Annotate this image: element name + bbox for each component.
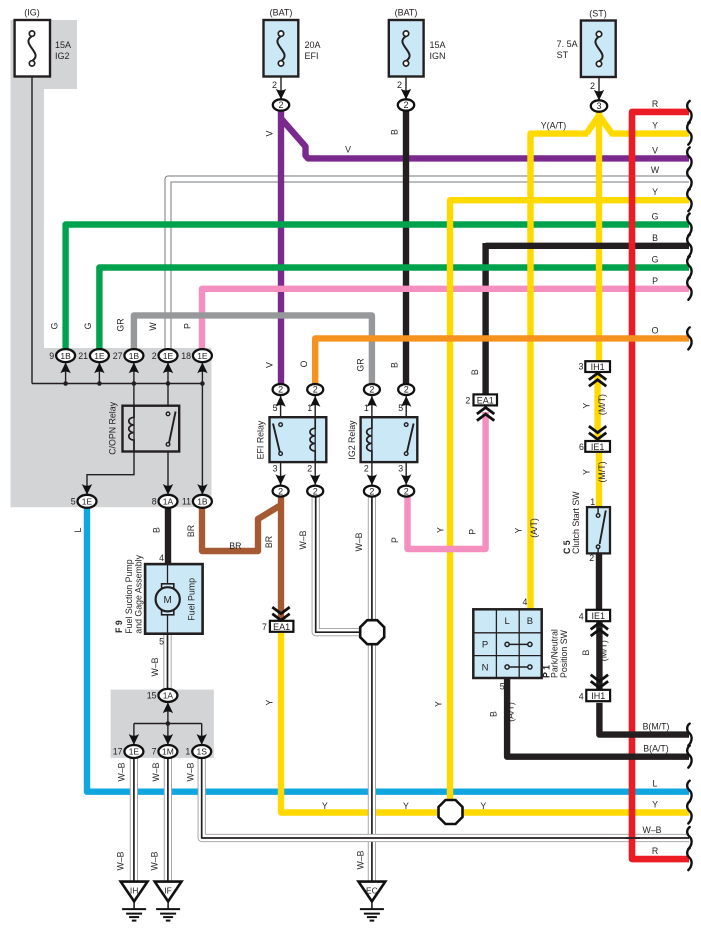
svg-text:R: R (652, 99, 658, 109)
svg-text:1E: 1E (82, 497, 93, 507)
svg-text:2: 2 (369, 486, 374, 496)
chevron into IH1 from below (589, 373, 606, 386)
svg-text:(M/T): (M/T) (597, 461, 607, 482)
svg-text:Y: Y (265, 700, 275, 706)
wire Y yellow vertical from second horizontal down to bottom splice (450, 200, 689, 806)
svg-text:(M/T): (M/T) (597, 394, 607, 415)
chevron into EA1 from below (477, 408, 494, 421)
wire G green 2 from right edge into JB 21 1E (99, 268, 689, 350)
svg-text:2: 2 (313, 486, 318, 496)
wire W-B bottom horizontal from JB 1 1S to right edge (202, 758, 689, 838)
svg-text:5: 5 (159, 636, 164, 646)
svg-text:W–B: W–B (115, 851, 125, 870)
oval connector 21 1E (90, 349, 109, 373)
wire B black clutch SW to IE1 (596, 553, 602, 609)
clutch start switch contacts (596, 507, 606, 553)
svg-text:B: B (652, 233, 658, 243)
relay IG2 coil pin1-pin2 (371, 417, 373, 462)
svg-text:B: B (389, 129, 399, 135)
svg-text:P: P (482, 640, 488, 651)
relay IG2 switch pin5-pin3 (404, 423, 413, 456)
wire stub fuse EFI to oval (280, 77, 282, 100)
fuse 7.5A ST (ST) (581, 21, 616, 78)
svg-text:Y(A/T): Y(A/T) (541, 121, 566, 131)
svg-text:1: 1 (364, 403, 369, 413)
svg-text:GR: GR (356, 358, 366, 371)
svg-text:1B: 1B (60, 351, 71, 361)
junction block gray area main block (11, 348, 212, 507)
JB bottom connector numbers (113, 691, 191, 757)
wire W-B from JB 7 1M to IF ground (164, 758, 172, 882)
svg-text:W–B: W–B (355, 850, 365, 869)
oval connector 1 1S (192, 734, 211, 758)
svg-text:1A: 1A (163, 497, 174, 507)
relay EFI coil pin1-pin2 (314, 417, 316, 462)
svg-text:2: 2 (307, 464, 312, 474)
splice octagon E3 on Y wires (439, 800, 463, 824)
svg-text:B: B (152, 527, 162, 533)
svg-text:Clutch Start SW: Clutch Start SW (571, 491, 581, 554)
svg-text:1M: 1M (162, 747, 174, 757)
wire C/OPN switch out to 8 1A (167, 444, 169, 495)
arrow into ST fuse oval (594, 90, 604, 101)
oval connector 2 below IG2 pin3 (398, 474, 414, 496)
svg-text:G: G (83, 322, 93, 329)
svg-text:W–B: W–B (298, 530, 308, 549)
wire Y(M/T) yellow from IH1 chevron down to IE1 chevron (594, 372, 600, 442)
svg-text:2: 2 (404, 385, 409, 395)
wire B(M/T) black between IE1 and IH1 (596, 622, 602, 690)
svg-text:1: 1 (185, 747, 190, 757)
svg-text:ST: ST (557, 50, 569, 60)
svg-text:5: 5 (398, 403, 403, 413)
svg-text:B: B (390, 362, 400, 368)
wire C/OPN coil out to 5 1E (87, 452, 134, 496)
wire BR brown from JB 11 1B looping to EFI relay drop (202, 505, 281, 551)
svg-text:W–B: W–B (149, 851, 159, 870)
svg-text:W–B: W–B (185, 762, 195, 781)
wire relay EFI pin stubs (281, 396, 316, 486)
svg-text:(BAT): (BAT) (270, 8, 293, 18)
svg-text:EA1: EA1 (477, 395, 494, 405)
ground IF (155, 882, 182, 921)
svg-text:2: 2 (397, 80, 402, 90)
wire B black bus horizontal from right edge to EA1 drop (486, 243, 689, 249)
oval connector 2 above EFI pin5 (273, 384, 289, 407)
svg-text:2: 2 (278, 486, 283, 496)
svg-text:4: 4 (579, 611, 584, 621)
svg-text:2: 2 (403, 100, 408, 110)
svg-text:Park/Neutral: Park/Neutral (549, 629, 559, 678)
svg-text:V: V (652, 145, 658, 155)
wire B black drop from bus to EA1 connector (482, 243, 488, 394)
connector box 3 IH1 (585, 361, 610, 372)
oval connector 18 1E (193, 349, 212, 373)
svg-text:IG2: IG2 (55, 51, 70, 61)
svg-text:15A: 15A (55, 40, 71, 50)
relay IG2 Relay box (361, 417, 418, 462)
fuel pump internal wire (167, 564, 169, 634)
svg-text:3: 3 (398, 464, 403, 474)
svg-text:2: 2 (590, 81, 595, 91)
svg-text:W–B: W–B (116, 762, 126, 781)
svg-text:P: P (390, 537, 400, 543)
oval connector 27 1B (124, 349, 143, 373)
svg-text:N: N (482, 662, 489, 673)
svg-text:BR: BR (186, 525, 196, 537)
ground EC (359, 882, 386, 921)
svg-text:Y: Y (582, 469, 592, 475)
svg-text:1E: 1E (197, 351, 208, 361)
park/neutral switch P row contact (505, 642, 532, 646)
svg-text:4: 4 (579, 691, 584, 701)
junction block gray area top-left column (11, 20, 78, 507)
svg-text:20A: 20A (305, 40, 321, 50)
relay C/OPN switch (166, 412, 175, 447)
svg-text:1S: 1S (196, 747, 207, 757)
svg-text:O: O (652, 325, 659, 335)
svg-text:L: L (73, 527, 83, 532)
connector box 4 IE1 (586, 610, 610, 621)
svg-text:G: G (652, 255, 659, 265)
svg-text:W–B: W–B (354, 532, 364, 551)
svg-text:Y: Y (403, 801, 409, 811)
fuse 20A EFI (BAT) (264, 20, 299, 77)
svg-text:2: 2 (364, 464, 369, 474)
svg-text:Y: Y (514, 528, 524, 534)
svg-text:1: 1 (590, 497, 595, 507)
svg-text:(BAT): (BAT) (395, 8, 418, 18)
fuse 15A IGN (BAT) (389, 20, 424, 77)
svg-text:IGN: IGN (430, 51, 446, 61)
P/N switch cell letters (482, 616, 534, 673)
svg-text:11: 11 (182, 497, 191, 507)
svg-text:W: W (148, 322, 158, 331)
wire V violet from EFI fuse: vertical, branch and horizontal to right edge (281, 111, 689, 385)
wire stubs JB row1 ovals to bus (66, 362, 203, 496)
svg-text:15A: 15A (430, 40, 446, 50)
wire O orange from right edge into EFI relay pin1 (315, 338, 689, 384)
svg-text:2: 2 (278, 100, 283, 110)
svg-text:B: B (527, 616, 533, 627)
splice octagon E4 on W-B wires (360, 620, 384, 644)
svg-text:P: P (652, 276, 658, 286)
svg-text:B: B (488, 711, 498, 717)
wire B(M/T) black from IH1 to right edge (599, 703, 689, 735)
relay EFI Relay box (270, 417, 327, 462)
svg-text:EFI Relay: EFI Relay (256, 420, 266, 459)
svg-text:4: 4 (159, 553, 164, 563)
wire Y(A/T) yellow from fork down to Park/Neutral SW pin4 (531, 134, 589, 610)
svg-text:3: 3 (596, 101, 601, 111)
oval connector 2 below EFI pin2 (307, 474, 323, 496)
connector box 7 EA1 (270, 621, 294, 632)
clutch start switch C5 box (587, 507, 610, 553)
svg-text:Y: Y (652, 187, 658, 197)
connector box 6 IE1 (585, 441, 610, 452)
wire W-B black stripe over red crossing (626, 837, 640, 839)
svg-text:5: 5 (500, 681, 505, 691)
svg-text:2: 2 (404, 486, 409, 496)
svg-text:V: V (264, 362, 274, 368)
svg-text:3: 3 (273, 464, 278, 474)
relay EFI switch pin5-pin3 (273, 423, 282, 456)
fuel pump motor M (156, 584, 180, 615)
svg-text:P: P (183, 323, 193, 329)
svg-text:5: 5 (71, 497, 76, 507)
svg-text:18: 18 (181, 351, 191, 361)
svg-text:B(A/T): B(A/T) (643, 744, 668, 754)
wire JB bottom tree 15 1A to trio (134, 702, 202, 745)
wire W-B from JB 17 1E to IH ground (130, 758, 138, 882)
relay pin numbers IG2 (364, 403, 403, 474)
wire P pink from right edge into JB 18 1E (202, 289, 689, 349)
wire Y yellow top horizontal right part with fork diagonal (587, 116, 690, 134)
oval connector 15 1A (158, 689, 177, 713)
wire Y(M/T) yellow from IE1 down to clutch start SW pin1 (596, 451, 602, 507)
svg-text:Fuel Pump: Fuel Pump (187, 578, 197, 621)
wire IG fuse to junction bus (thin) (31, 77, 33, 384)
svg-text:1E: 1E (129, 747, 140, 757)
arrow into IGN fuse oval (401, 89, 411, 100)
wire Y yellow from EA1 down and bottom horizontal to right edge (281, 633, 689, 813)
svg-text:EFI: EFI (305, 51, 319, 61)
svg-text:BR: BR (229, 541, 241, 551)
svg-text:V: V (345, 145, 351, 155)
svg-text:C/OPN Relay: C/OPN Relay (108, 401, 118, 454)
svg-text:V: V (265, 130, 275, 136)
JB row1 connector numbers (49, 351, 191, 361)
oval connector 17 1E (124, 734, 143, 758)
svg-text:Y: Y (480, 801, 486, 811)
chevron into IE1 #4 from below (591, 623, 608, 636)
svg-text:Y: Y (652, 121, 658, 131)
svg-text:Position SW: Position SW (559, 629, 569, 678)
svg-text:IH1: IH1 (591, 691, 605, 701)
svg-text:27: 27 (113, 351, 123, 361)
svg-text:5: 5 (273, 403, 278, 413)
oval connector 2 above IG2 pin5 (398, 384, 414, 407)
svg-text:W–B: W–B (150, 657, 160, 676)
svg-text:1A: 1A (163, 691, 174, 701)
svg-text:L: L (504, 616, 509, 627)
svg-text:W–B: W–B (151, 762, 161, 781)
wire G green from right edge into JB 9 1B (66, 225, 689, 350)
svg-text:8: 8 (152, 497, 157, 507)
right edge wire labels top (651, 99, 660, 336)
svg-text:2: 2 (152, 351, 157, 361)
svg-text:1E: 1E (163, 351, 174, 361)
wire relay IG2 pin stubs (372, 396, 406, 486)
svg-text:EC: EC (366, 886, 378, 896)
svg-text:IF: IF (164, 886, 172, 896)
chevron into EA1 from above (272, 607, 289, 620)
svg-text:Y: Y (582, 403, 592, 409)
svg-text:7: 7 (262, 622, 267, 632)
svg-text:Y: Y (322, 801, 328, 811)
oval connector 9 1B (56, 349, 75, 373)
svg-text:15: 15 (147, 691, 157, 701)
svg-text:Y: Y (433, 701, 443, 707)
wire B black from IGN fuse to IG2 relay pin5 (403, 111, 409, 385)
JB row2 connector numbers (71, 497, 191, 507)
junction block gray area bottom block (111, 690, 214, 758)
wire L blue from JB 5 1E to right edge (87, 508, 689, 792)
svg-text:(ST): (ST) (589, 9, 607, 19)
wire W white horizontal from right edge into JB 2 1E (168, 179, 689, 349)
svg-text:W–B: W–B (642, 825, 661, 835)
svg-text:and Gage Assembly: and Gage Assembly (133, 554, 143, 633)
park/neutral switch N row contact (505, 665, 532, 669)
oval connector 8 1A (159, 484, 178, 508)
svg-text:1: 1 (307, 403, 312, 413)
svg-text:1B: 1B (197, 497, 208, 507)
arrow into EFI fuse oval (276, 89, 286, 100)
ground IH (121, 882, 148, 921)
junction dots on JB bus (63, 381, 204, 386)
wire B(A/T) black from Park/Neutral SW pin5 to right edge (507, 678, 689, 757)
svg-text:G: G (652, 212, 659, 222)
svg-text:Y: Y (652, 800, 658, 810)
oval connector 2 below EFI pin3 (273, 474, 289, 496)
rotated wire labels above JB row1 (50, 318, 193, 331)
svg-text:B: B (470, 369, 480, 375)
svg-text:G: G (50, 322, 60, 329)
wire BR brown from EFI relay pin3 down to EA1 (278, 497, 284, 620)
svg-text:IE1: IE1 (591, 611, 605, 621)
svg-text:GR: GR (115, 318, 125, 331)
svg-text:2: 2 (465, 395, 470, 405)
wire B black from JB 8 1A to fuel pump pin4 (165, 508, 171, 565)
park/neutral position switch P1 box (473, 609, 541, 678)
labels Y on bottom yellow bus (322, 801, 487, 811)
svg-text:7. 5A: 7. 5A (557, 39, 578, 49)
relay C/OPN Relay box (123, 406, 180, 452)
oval connector 2 below IG2 pin2 (364, 474, 380, 496)
svg-text:4: 4 (522, 597, 527, 607)
wire R red from right edge around to bottom right edge (632, 112, 689, 859)
oval connector 11 1B (193, 484, 212, 508)
fuse 15A IG2 (IG) (15, 20, 50, 77)
svg-text:IG2 Relay: IG2 Relay (347, 420, 357, 460)
oval connector 2 1E (159, 349, 178, 373)
connector box 4 IH1 (586, 690, 610, 701)
wire W-B from fuel pump pin5 to JB 15 1A (163, 634, 171, 689)
svg-text:17: 17 (113, 747, 123, 757)
svg-text:F 9: F 9 (114, 620, 124, 633)
svg-text:Fuel Suction Pump: Fuel Suction Pump (124, 559, 134, 633)
oval connector 2 below IGN fuse (398, 99, 414, 110)
svg-text:M: M (164, 595, 172, 606)
svg-text:EA1: EA1 (273, 622, 290, 632)
connector box 2 EA1 (474, 394, 498, 405)
wire W-B from splice octagon to EC ground (368, 642, 376, 882)
svg-text:21: 21 (78, 351, 88, 361)
svg-text:1B: 1B (129, 351, 140, 361)
oval connector 5 1E (78, 484, 97, 508)
svg-text:9: 9 (49, 351, 54, 361)
svg-text:(A/T): (A/T) (529, 518, 539, 538)
svg-text:(IG): (IG) (24, 8, 40, 18)
relay pin numbers EFI (273, 403, 313, 474)
svg-text:2: 2 (313, 385, 318, 395)
svg-text:2: 2 (589, 553, 594, 563)
oval connector 2 above EFI pin1 (307, 384, 323, 407)
wire GR gray from JB 27 1B to IG2 relay pin1 (134, 315, 372, 384)
svg-text:B(M/T): B(M/T) (643, 722, 670, 732)
svg-text:W: W (651, 165, 660, 175)
svg-text:BR: BR (264, 536, 274, 548)
svg-text:IE1: IE1 (591, 442, 605, 452)
svg-text:6: 6 (579, 442, 584, 452)
svg-text:IH: IH (130, 886, 139, 896)
svg-text:7: 7 (152, 747, 157, 757)
fuel pump F9 box (145, 564, 203, 634)
svg-text:(M/T): (M/T) (599, 640, 609, 661)
svg-text:R: R (652, 846, 658, 856)
svg-text:2: 2 (278, 385, 283, 395)
oval connector 2 above IG2 pin1 (364, 384, 380, 407)
wire W-B from IG2 relay pin2 to splice octagon (368, 497, 376, 622)
svg-text:1E: 1E (94, 351, 105, 361)
wire W-B from EFI relay pin2 to splice octagon (316, 497, 362, 633)
oval connector 2 below EFI fuse (273, 99, 289, 110)
svg-text:2: 2 (272, 80, 277, 90)
wire stub fuse ST to oval (598, 77, 600, 100)
relay C/OPN coil (133, 406, 135, 452)
oval connector 7 1M (158, 734, 177, 758)
chevron into IH1 #4 from above (591, 675, 608, 688)
wire P pink from IG2 relay pin3 to EA1 chevron (408, 412, 486, 549)
wire Y yellow from ST fuse down to IH1 (596, 111, 602, 362)
edge squiggles bottom right (687, 724, 691, 871)
chevron into IE1 from above (589, 426, 606, 439)
svg-text:IH1: IH1 (591, 362, 605, 372)
svg-text:P: P (468, 529, 478, 535)
svg-text:Y: Y (435, 527, 445, 533)
svg-text:(A/T): (A/T) (506, 702, 516, 722)
svg-text:2: 2 (369, 385, 374, 395)
svg-text:O: O (299, 360, 309, 367)
svg-text:B: B (581, 650, 591, 656)
junction bus wire inside relay block (32, 383, 202, 385)
edge squiggles top right (687, 101, 691, 350)
svg-text:3: 3 (578, 361, 583, 371)
svg-text:L: L (653, 779, 658, 789)
oval connector 3 below ST fuse (591, 100, 607, 111)
right edge wire labels bottom (642, 722, 669, 857)
junction dot JB bottom tree (166, 721, 171, 726)
wire stub fuse IGN to oval (405, 77, 407, 100)
